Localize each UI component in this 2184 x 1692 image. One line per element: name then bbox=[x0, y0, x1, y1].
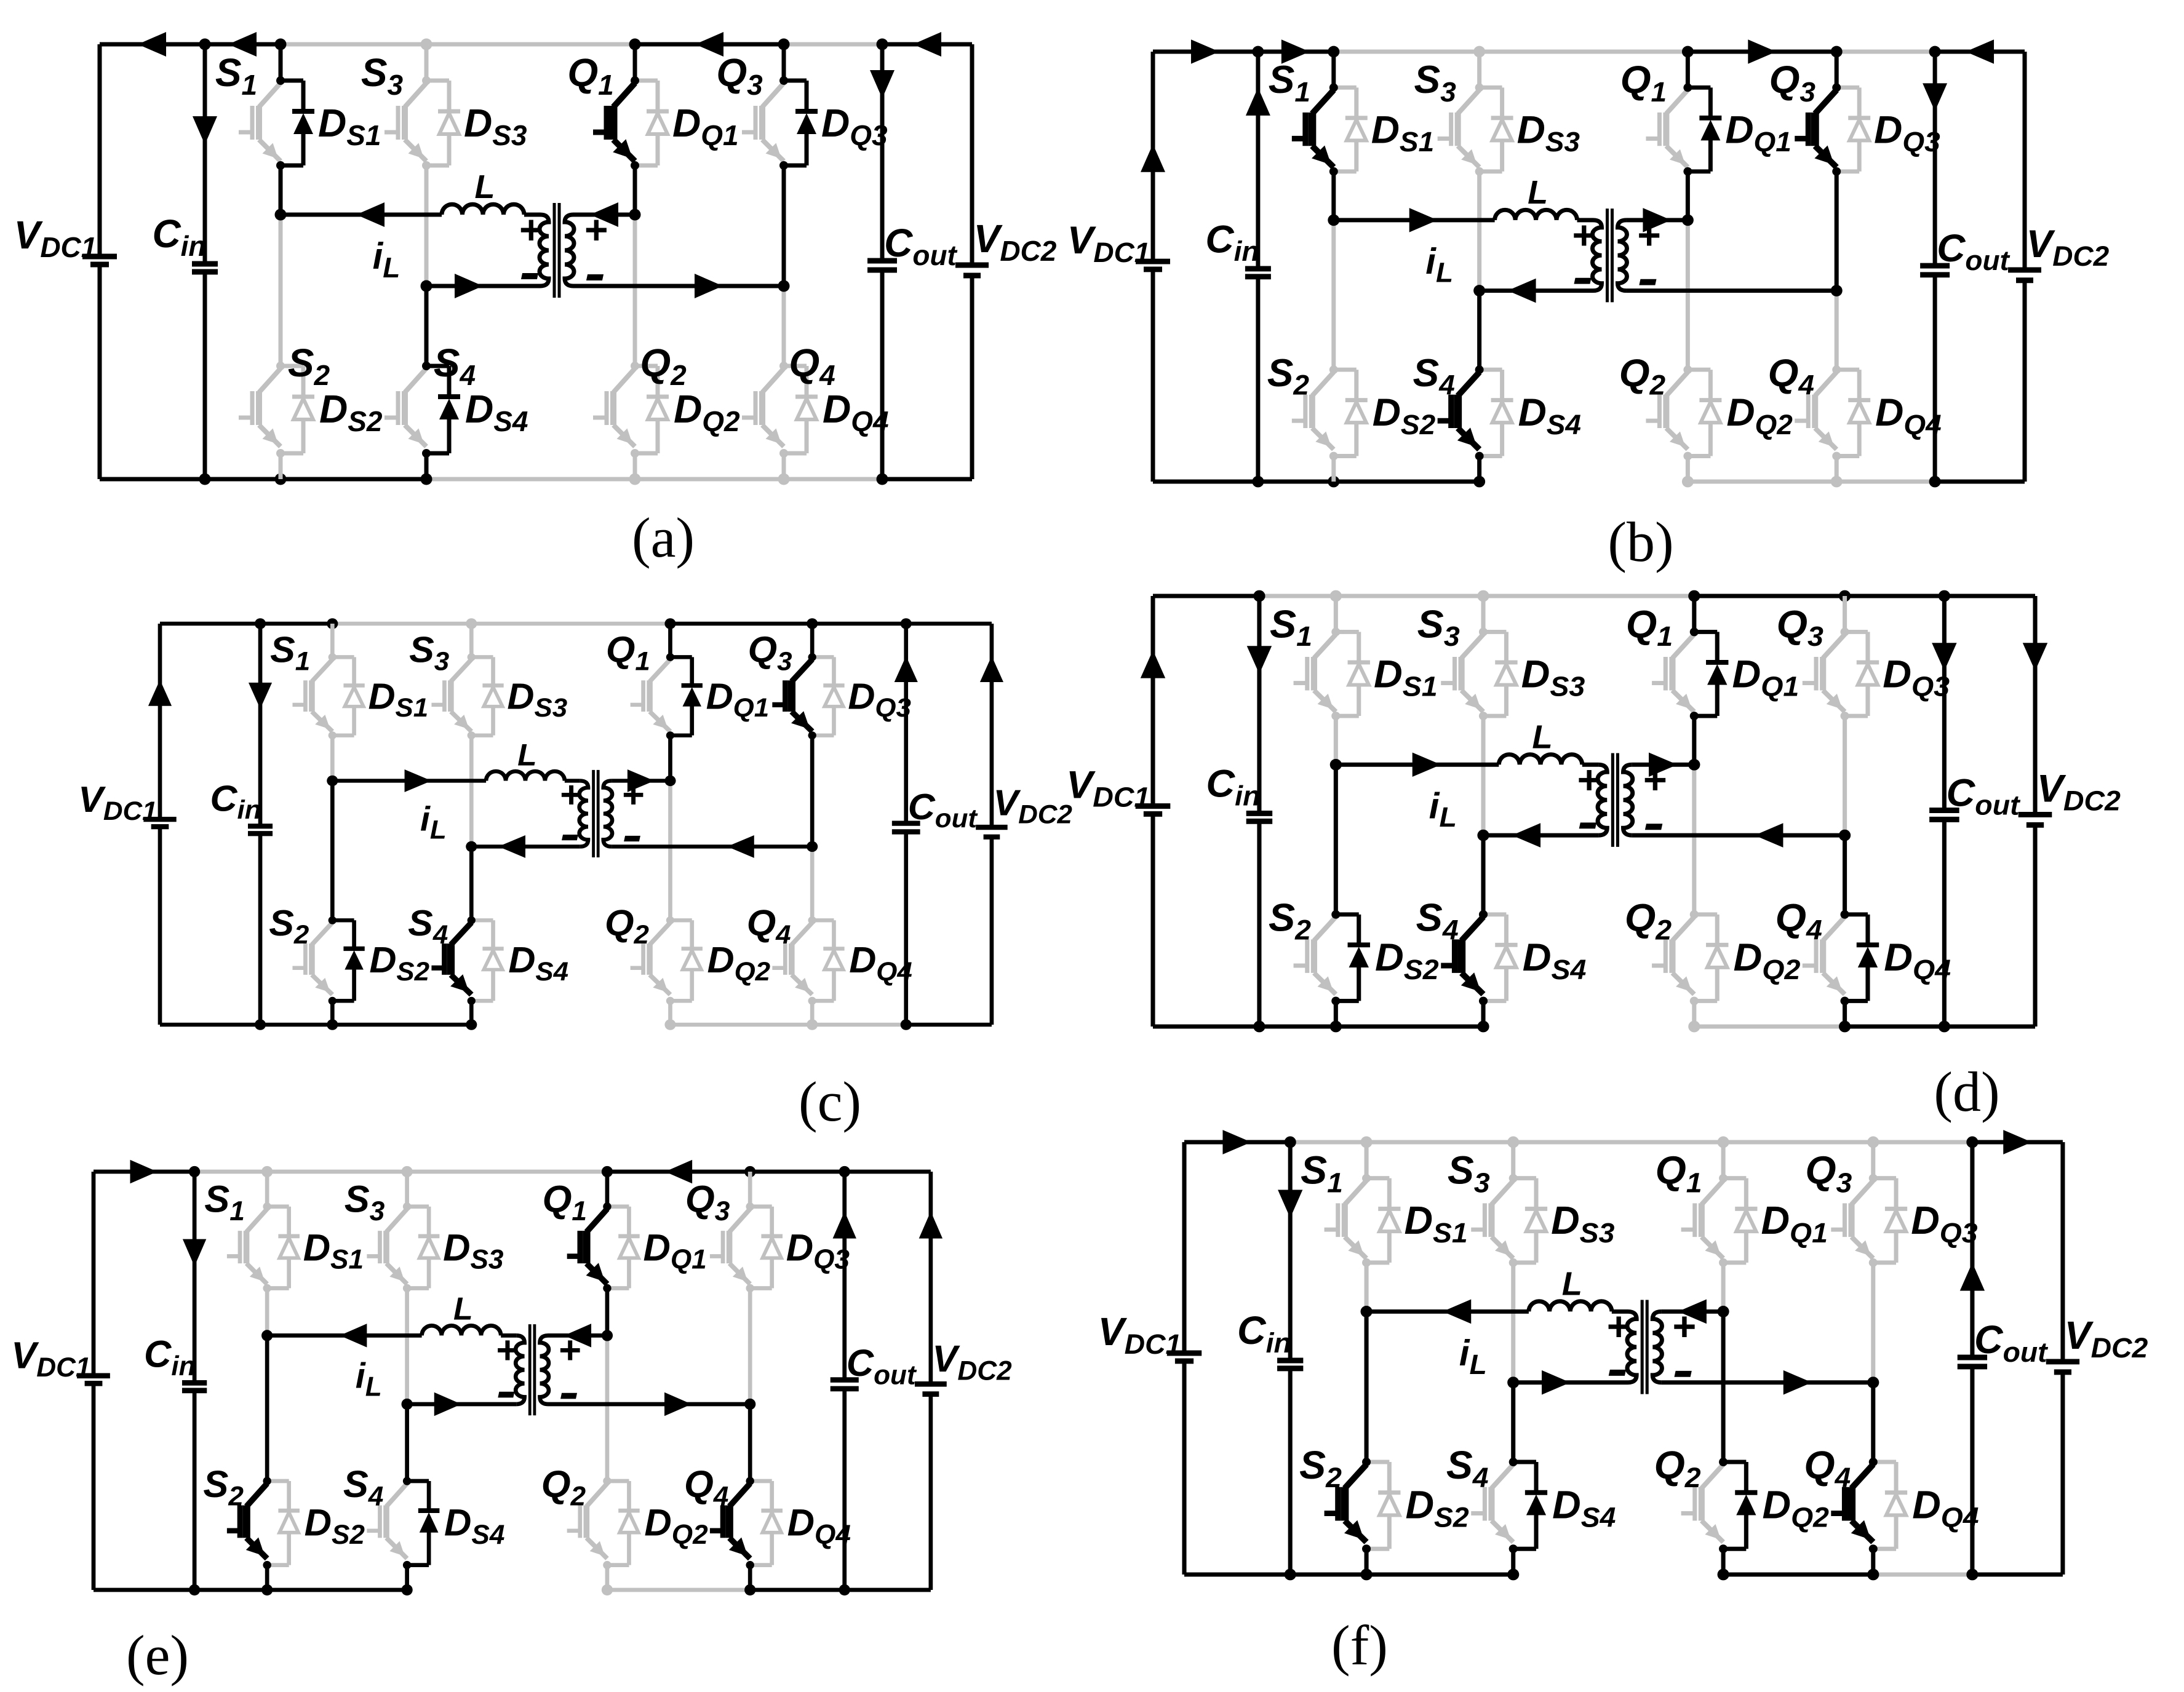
wire Cout branch (e) bbox=[842, 1172, 847, 1380]
diode DQ4 (d) bbox=[1845, 912, 1868, 916]
node S2 loop corners (f) bbox=[1362, 1458, 1371, 1466]
current arrow Cin wire (b) bbox=[1246, 87, 1270, 115]
wire S2 leg upper (d) bbox=[1334, 765, 1338, 915]
wire bottom rail seg1 (b) bbox=[1153, 480, 1258, 484]
node Q3 loop corners (a) bbox=[779, 76, 788, 85]
wire VDC2 branch (c) bbox=[989, 624, 994, 827]
wire bottom rail seg1 (f) bbox=[1184, 1572, 1290, 1576]
wire bottom rail seg3 (c) bbox=[332, 1022, 471, 1027]
wire bottom rail seg3 (d) bbox=[1336, 1025, 1483, 1029]
transistor Q3 (d) bbox=[1823, 634, 1844, 658]
wire top rail seg7 (d) bbox=[1944, 594, 2035, 598]
wire S4 leg lower (c) bbox=[469, 1001, 474, 1025]
wire Q4 leg lower (f) bbox=[1871, 1549, 1875, 1575]
node top rail x=531 (b) bbox=[1473, 46, 1485, 58]
diode DQ4 (b) bbox=[1836, 368, 1859, 372]
diode DS4 (f) bbox=[1513, 1460, 1536, 1464]
current arrow top rail (b) bbox=[1748, 39, 1776, 64]
node S-bridge mid1 junction (b) bbox=[1328, 214, 1339, 226]
wire S3 leg upper (e) bbox=[405, 1172, 409, 1207]
wire S2 leg lower (e) bbox=[265, 1565, 269, 1590]
diode DQ1 (b) bbox=[1688, 85, 1710, 90]
node bottom rail x=171 (d) bbox=[1253, 1021, 1265, 1033]
wire bottom rail seg2 (f) bbox=[1290, 1572, 1366, 1576]
wire S1 leg upper (b) bbox=[1331, 52, 1336, 87]
transistor S2 (f) bbox=[1345, 1464, 1366, 1488]
wire Q1 leg upper (e) bbox=[605, 1172, 609, 1207]
wire VDC2 branch (b) bbox=[2023, 52, 2027, 270]
transistor Q2 (b) bbox=[1666, 372, 1688, 396]
wire S3 leg upper (b) bbox=[1477, 52, 1481, 87]
wire top rail seg5 (e) bbox=[607, 1170, 750, 1174]
wire Q2 leg lower (a) bbox=[633, 453, 637, 479]
current arrow top rail (f) bbox=[2003, 1130, 2031, 1154]
wire top rail seg1 (a) bbox=[100, 42, 205, 47]
node S-bridge mid1 junction (a) bbox=[275, 209, 287, 221]
wire top rail seg5 (f) bbox=[1723, 1140, 1873, 1145]
diode DS3 (e) bbox=[407, 1204, 429, 1209]
battery VDC2 (d) bbox=[2019, 812, 2052, 817]
node S4 loop corners (c) bbox=[468, 916, 476, 924]
node top rail x=870 (f) bbox=[1718, 1137, 1729, 1148]
wire Q1 leg lower (d) bbox=[1692, 716, 1696, 765]
wire S3 leg lower (c) bbox=[469, 736, 474, 847]
transformer T primary winding (e) bbox=[516, 1335, 524, 1404]
node Q2 loop corners (b) bbox=[1683, 365, 1692, 374]
wire bottom rail seg6 (a) bbox=[784, 477, 882, 482]
transformer T primary winding (b) bbox=[1592, 220, 1601, 291]
node top rail x=531 (a) bbox=[421, 39, 432, 50]
wire mid1 primary (e) bbox=[267, 1333, 421, 1338]
svg-text:(e): (e) bbox=[126, 1624, 189, 1686]
diode DQ1 (e) bbox=[607, 1204, 629, 1209]
diode DS2 (d) bbox=[1336, 912, 1358, 916]
svg-text:L: L bbox=[1528, 174, 1548, 211]
wire bottom rail seg2 (d) bbox=[1259, 1025, 1336, 1029]
node top rail x=1112 (d) bbox=[1839, 590, 1851, 602]
diode DQ3 (b) bbox=[1836, 85, 1859, 90]
wire Q3 leg lower (f) bbox=[1871, 1263, 1875, 1383]
node bottom rail x=870 (f) bbox=[1718, 1569, 1729, 1581]
transistor Q2 (e) bbox=[586, 1483, 607, 1507]
svg-text:+: + bbox=[1606, 1304, 1630, 1349]
wire top rail seg1 (f) bbox=[1184, 1140, 1290, 1145]
wire mid1 secondary (c) bbox=[612, 779, 670, 783]
wire S3 leg lower (a) bbox=[424, 165, 429, 286]
node top rail x=1272 (f) bbox=[1966, 1137, 1978, 1148]
node Q2 loop corners (f) bbox=[1719, 1458, 1728, 1466]
node Q3 loop corners (e) bbox=[746, 1202, 754, 1210]
wire top rail seg5 (b) bbox=[1688, 50, 1836, 54]
node S-bridge mid2 junction (d) bbox=[1477, 830, 1489, 841]
node top rail x=171 (d) bbox=[1253, 590, 1265, 602]
wire S2 leg upper (e) bbox=[265, 1335, 269, 1481]
transistor S1 (c) bbox=[312, 659, 332, 681]
transistor Q2 (f) bbox=[1702, 1464, 1723, 1488]
wire S2 leg upper (c) bbox=[330, 780, 335, 920]
node top rail x=1112 (b) bbox=[1831, 46, 1843, 58]
wire S4 leg lower (f) bbox=[1511, 1549, 1515, 1575]
node top rail x=294 (e) bbox=[261, 1166, 273, 1177]
diode DS2 (f) bbox=[1366, 1460, 1389, 1464]
wire Q2 leg lower (e) bbox=[605, 1565, 609, 1590]
svg-text:+: + bbox=[1643, 757, 1667, 801]
wire Q2 leg upper (e) bbox=[605, 1335, 609, 1481]
node top rail x=531 (c) bbox=[466, 618, 477, 629]
transistor Q1 (c) bbox=[650, 659, 670, 681]
wire Q3 leg upper (c) bbox=[810, 624, 815, 657]
current arrow mid2 primary (d) bbox=[1512, 823, 1541, 848]
wire Q4 leg lower (a) bbox=[782, 453, 786, 479]
wire Q3 leg upper (b) bbox=[1835, 52, 1839, 87]
wire mid1 primary (c) bbox=[332, 779, 486, 783]
diode DS4 (b) bbox=[1480, 368, 1502, 372]
wire bottom rail seg1 (a) bbox=[100, 477, 205, 482]
transistor S2 (d) bbox=[1314, 917, 1336, 941]
wire bottom rail seg5 (f) bbox=[1723, 1572, 1873, 1576]
wire top rail seg6 (f) bbox=[1873, 1140, 1972, 1145]
node Q2 loop corners (e) bbox=[603, 1477, 611, 1485]
wire mid2 secondary (e) bbox=[548, 1402, 750, 1406]
node S2 loop corners (e) bbox=[263, 1477, 271, 1485]
transformer T secondary winding (d) bbox=[1624, 765, 1633, 835]
transformer T primary winding (c) bbox=[580, 780, 588, 846]
node S4 loop corners (a) bbox=[422, 362, 431, 370]
node top rail x=1112 (e) bbox=[744, 1166, 755, 1177]
node bottom rail x=171 (a) bbox=[199, 474, 211, 485]
wire VDC2 branch (d) bbox=[2033, 596, 2038, 814]
diode DS1 (c) bbox=[332, 655, 354, 659]
current arrow L wire (d) bbox=[1141, 650, 1165, 678]
node top rail x=531 (e) bbox=[401, 1166, 412, 1177]
node Q4 loop corners (f) bbox=[1869, 1458, 1878, 1466]
transistor Q1 (f) bbox=[1702, 1181, 1723, 1205]
label transformer polarity (c) bbox=[559, 774, 644, 841]
current arrow top rail (a) bbox=[695, 32, 723, 57]
wire Q2 leg upper (d) bbox=[1692, 765, 1696, 915]
wire Cin branch (b) bbox=[1256, 52, 1260, 269]
node bottom rail x=294 (f) bbox=[1360, 1569, 1372, 1581]
transistor Q2 (d) bbox=[1672, 917, 1694, 941]
current arrow top rail (e) bbox=[130, 1160, 157, 1183]
transformer T primary winding (d) bbox=[1598, 765, 1607, 835]
wire Q4 leg upper (d) bbox=[1843, 835, 1847, 915]
current arrow mid2 primary (e) bbox=[434, 1392, 461, 1416]
wire mid2 primary (e) bbox=[407, 1402, 517, 1406]
diode DQ1 (f) bbox=[1723, 1176, 1746, 1180]
wire mid1 primary (b) bbox=[1334, 218, 1495, 222]
wire top rail seg2 (a) bbox=[205, 42, 281, 47]
node Q-bridge mid1 junction (c) bbox=[664, 776, 676, 787]
current arrow top rail (e) bbox=[665, 1160, 692, 1183]
transistor Q3 (e) bbox=[730, 1209, 751, 1233]
wire bottom rail seg7 (b) bbox=[1935, 480, 2025, 484]
wire S2 leg lower (b) bbox=[1331, 456, 1336, 482]
label transformer polarity (d) bbox=[1576, 757, 1666, 830]
svg-text:+: + bbox=[558, 1329, 581, 1372]
node S4 loop corners (d) bbox=[1479, 910, 1488, 919]
node S-bridge mid2 junction (b) bbox=[1473, 285, 1485, 296]
current arrow Cout wire (c) bbox=[895, 656, 918, 682]
wire top rail seg6 (b) bbox=[1836, 50, 1935, 54]
svg-text:(d): (d) bbox=[1934, 1060, 1999, 1123]
wire bottom rail seg2 (a) bbox=[205, 477, 281, 482]
transformer T secondary winding (b) bbox=[1617, 220, 1627, 291]
wire S4 leg upper (d) bbox=[1481, 835, 1486, 915]
transistor Q4 (e) bbox=[730, 1483, 751, 1507]
diode DS2 (a) bbox=[281, 364, 303, 368]
current arrow mid2 primary (c) bbox=[498, 835, 525, 858]
diode DQ1 (a) bbox=[635, 79, 658, 83]
transistor Q3 (a) bbox=[762, 83, 784, 107]
wire mid1 primary (f) bbox=[1366, 1309, 1529, 1314]
node bottom rail x=531 (e) bbox=[401, 1584, 412, 1595]
transistor S1 (e) bbox=[247, 1209, 268, 1233]
node Q4 loop corners (d) bbox=[1840, 910, 1849, 919]
wire Cin branch (d) bbox=[1257, 596, 1261, 813]
svg-text:L: L bbox=[475, 169, 495, 205]
node bottom rail x=531 (f) bbox=[1507, 1569, 1519, 1581]
transistor Q2 (c) bbox=[650, 923, 670, 945]
node top rail x=1112 (f) bbox=[1867, 1137, 1879, 1148]
node top rail x=1272 (b) bbox=[1929, 46, 1941, 58]
wire mid1 primary (a) bbox=[281, 213, 442, 217]
node S-bridge mid1 junction (f) bbox=[1360, 1306, 1372, 1317]
current arrow mid1 secondary (e) bbox=[564, 1324, 591, 1347]
svg-text:+: + bbox=[1636, 213, 1660, 258]
node top rail x=870 (d) bbox=[1688, 590, 1700, 602]
wire S4 leg upper (e) bbox=[405, 1404, 409, 1481]
diode DQ3 (e) bbox=[750, 1204, 772, 1209]
diode DQ4 (f) bbox=[1873, 1460, 1896, 1464]
wire S3 leg upper (d) bbox=[1481, 596, 1486, 632]
node bottom rail x=1272 (f) bbox=[1966, 1569, 1978, 1581]
diode DS3 (d) bbox=[1483, 630, 1506, 634]
node S4 loop corners (f) bbox=[1509, 1458, 1518, 1466]
wire mid2 secondary (a) bbox=[573, 284, 784, 288]
transformer T secondary winding (f) bbox=[1652, 1311, 1662, 1382]
node bottom rail x=171 (f) bbox=[1285, 1569, 1296, 1581]
wire mid2 primary (a) bbox=[426, 284, 540, 288]
node Q3 loop corners (d) bbox=[1840, 627, 1849, 636]
wire top rail seg7 (a) bbox=[882, 42, 972, 47]
current arrow Cin wire (e) bbox=[183, 1239, 206, 1266]
wire VDC2 branch (f) bbox=[2060, 1142, 2065, 1362]
current arrow iL primary (e) bbox=[340, 1324, 367, 1347]
current arrow top rail (f) bbox=[1222, 1130, 1251, 1154]
wire mid2 primary (b) bbox=[1480, 288, 1593, 293]
transistor S4 (a) bbox=[405, 368, 426, 392]
current arrow Cin wire (f) bbox=[1278, 1190, 1302, 1218]
wire top rail seg7 (b) bbox=[1935, 50, 2025, 54]
current arrow mid2 secondary (c) bbox=[727, 835, 754, 858]
node bottom rail x=870 (a) bbox=[629, 474, 641, 485]
wire Q1 leg lower (f) bbox=[1721, 1263, 1726, 1312]
node bottom rail x=294 (c) bbox=[327, 1019, 338, 1030]
node top rail x=294 (f) bbox=[1360, 1137, 1372, 1148]
wire mid2 secondary (d) bbox=[1632, 833, 1845, 838]
transistor S3 (b) bbox=[1458, 90, 1480, 114]
node bottom rail x=1272 (e) bbox=[839, 1584, 850, 1595]
wire Q2 leg upper (b) bbox=[1686, 220, 1690, 370]
wire S4 leg lower (e) bbox=[405, 1565, 409, 1590]
node bottom rail x=294 (d) bbox=[1330, 1021, 1342, 1033]
node S1 loop corners (e) bbox=[263, 1202, 271, 1210]
wire bottom rail seg7 (a) bbox=[882, 477, 972, 482]
capacitor Cout (a) bbox=[867, 258, 897, 264]
wire bottom rail seg6 (f) bbox=[1873, 1572, 1972, 1576]
wire VDC2 branch (e) bbox=[928, 1172, 933, 1384]
wire S2 leg lower (d) bbox=[1334, 1001, 1338, 1027]
battery VDC1 (b) bbox=[1136, 259, 1170, 264]
diode DS3 (c) bbox=[471, 655, 493, 659]
transistor S1 (f) bbox=[1345, 1181, 1366, 1205]
capacitor Cout (b) bbox=[1920, 263, 1950, 269]
node Q1 loop corners (e) bbox=[603, 1202, 611, 1210]
node top rail x=171 (f) bbox=[1285, 1137, 1296, 1148]
wire S3 leg upper (a) bbox=[424, 44, 429, 81]
wire Cout branch (d) bbox=[1942, 596, 1947, 811]
transistor Q3 (b) bbox=[1815, 90, 1836, 114]
capacitor Cin (d) bbox=[1246, 811, 1272, 816]
label transformer polarity (e) bbox=[495, 1329, 581, 1399]
wire top rail seg4 (f) bbox=[1513, 1140, 1723, 1145]
node top rail x=1112 (a) bbox=[778, 39, 790, 50]
wire bottom rail seg5 (c) bbox=[670, 1022, 812, 1027]
wire Cout branch (c) bbox=[904, 624, 908, 824]
wire S2 leg upper (f) bbox=[1365, 1311, 1369, 1462]
node S3 loop corners (a) bbox=[422, 76, 431, 85]
wire top rail seg6 (e) bbox=[750, 1170, 845, 1174]
current arrow mid2 secondary (f) bbox=[1783, 1370, 1812, 1395]
wire Q3 leg upper (a) bbox=[782, 44, 786, 81]
capacitor Cin (c) bbox=[248, 824, 273, 829]
wire VDC2 branch (a) bbox=[970, 44, 974, 265]
wire mid2 primary (f) bbox=[1513, 1380, 1628, 1384]
transformer T primary winding (a) bbox=[540, 215, 549, 286]
current arrow Cout wire (d) bbox=[1932, 643, 1956, 671]
wire S4 leg lower (b) bbox=[1477, 456, 1481, 482]
wire bottom rail seg3 (a) bbox=[281, 477, 426, 482]
node Q-bridge mid2 junction (f) bbox=[1867, 1376, 1879, 1388]
transistor S3 (d) bbox=[1462, 634, 1483, 658]
wire Q1 leg upper (c) bbox=[668, 624, 672, 657]
transistor S2 (c) bbox=[312, 923, 332, 945]
label transformer polarity (b) bbox=[1571, 213, 1660, 285]
wire mid1 secondary (f) bbox=[1661, 1309, 1723, 1314]
diode DQ3 (a) bbox=[784, 79, 807, 83]
node S3 loop corners (e) bbox=[403, 1202, 411, 1210]
wire top rail seg2 (d) bbox=[1259, 594, 1336, 598]
wire bottom rail seg7 (c) bbox=[906, 1022, 992, 1027]
current arrow Cin wire (d) bbox=[1247, 646, 1272, 674]
wire mid1 secondary (d) bbox=[1632, 763, 1694, 767]
wire top rail seg7 (e) bbox=[845, 1170, 931, 1174]
wire top rail seg4 (e) bbox=[407, 1170, 607, 1174]
wire mid2 secondary (c) bbox=[612, 844, 812, 849]
diode DQ2 (b) bbox=[1688, 368, 1710, 372]
capacitor Cout (d) bbox=[1929, 808, 1959, 813]
wire top rail seg3 (b) bbox=[1334, 50, 1480, 54]
current arrow mid2 secondary (d) bbox=[1755, 823, 1783, 848]
wire top rail seg2 (b) bbox=[1258, 50, 1334, 54]
node bottom rail x=171 (e) bbox=[189, 1584, 200, 1595]
node bottom rail x=531 (c) bbox=[466, 1019, 477, 1030]
current arrow iL primary (b) bbox=[1409, 208, 1438, 232]
svg-text:+: + bbox=[519, 207, 543, 252]
node S2 loop corners (c) bbox=[329, 916, 337, 924]
diode DS2 (e) bbox=[267, 1479, 289, 1483]
diode DQ2 (c) bbox=[670, 918, 691, 923]
diode DS3 (f) bbox=[1513, 1176, 1536, 1180]
node bottom rail x=1112 (d) bbox=[1839, 1021, 1851, 1033]
node S-bridge mid2 junction (a) bbox=[421, 280, 432, 292]
transistor Q4 (a) bbox=[762, 368, 784, 392]
node bottom rail x=294 (e) bbox=[261, 1584, 273, 1595]
wire top rail seg2 (f) bbox=[1290, 1140, 1366, 1145]
node bottom rail x=1112 (e) bbox=[744, 1584, 755, 1595]
transistor Q4 (b) bbox=[1815, 372, 1836, 396]
wire top rail seg6 (a) bbox=[784, 42, 882, 47]
wire S2 leg lower (a) bbox=[279, 453, 283, 479]
wire bottom rail seg1 (d) bbox=[1153, 1025, 1259, 1029]
current arrow Cin wire (c) bbox=[249, 683, 272, 709]
node top rail x=171 (c) bbox=[255, 618, 266, 629]
wire Q4 leg lower (c) bbox=[810, 1001, 815, 1025]
wire bottom rail seg7 (d) bbox=[1944, 1025, 2035, 1029]
current arrow iL primary (a) bbox=[356, 202, 385, 227]
node bottom rail x=1112 (b) bbox=[1831, 476, 1843, 488]
diode DQ4 (e) bbox=[750, 1479, 772, 1483]
transistor Q1 (d) bbox=[1672, 634, 1694, 658]
transistor Q4 (c) bbox=[792, 923, 812, 945]
wire top rail seg1 (b) bbox=[1153, 50, 1258, 54]
diode DQ2 (a) bbox=[635, 364, 658, 368]
diode DS4 (a) bbox=[426, 364, 449, 368]
capacitor Cin (b) bbox=[1245, 266, 1271, 271]
wire S1 leg lower (d) bbox=[1334, 716, 1338, 765]
wire Q2 leg lower (d) bbox=[1692, 1001, 1696, 1027]
wire mid2 primary (d) bbox=[1483, 833, 1598, 838]
wire Cin branch (f) bbox=[1288, 1142, 1293, 1360]
transformer T core (c) bbox=[592, 770, 595, 857]
node top rail x=171 (e) bbox=[189, 1166, 200, 1177]
node bottom rail x=1112 (f) bbox=[1867, 1569, 1879, 1581]
wire bottom rail seg5 (d) bbox=[1694, 1025, 1845, 1029]
node top rail x=870 (c) bbox=[664, 618, 676, 629]
svg-text:L: L bbox=[1532, 719, 1552, 755]
wire bottom rail seg3 (e) bbox=[267, 1587, 407, 1592]
diode DQ3 (d) bbox=[1845, 630, 1868, 634]
node top rail x=870 (a) bbox=[629, 39, 641, 50]
capacitor Cin (e) bbox=[182, 1380, 207, 1386]
wire S3 leg lower (e) bbox=[405, 1288, 409, 1404]
node S4 loop corners (e) bbox=[403, 1477, 411, 1485]
node S1 loop corners (b) bbox=[1329, 83, 1338, 92]
diode DS3 (b) bbox=[1480, 85, 1502, 90]
node Q2 loop corners (d) bbox=[1690, 910, 1699, 919]
wire VDC1 branch (b) bbox=[1151, 52, 1155, 261]
wire S4 leg upper (b) bbox=[1477, 291, 1481, 370]
wire mid1 primary (d) bbox=[1336, 763, 1499, 767]
wire bottom rail seg6 (c) bbox=[812, 1022, 906, 1027]
node S3 loop corners (b) bbox=[1475, 83, 1484, 92]
wire Q4 leg upper (f) bbox=[1871, 1383, 1875, 1462]
node S2 loop corners (d) bbox=[1331, 910, 1340, 919]
wire Cout branch (a) bbox=[880, 44, 885, 261]
wire Q1 leg lower (e) bbox=[605, 1288, 609, 1335]
transistor Q3 (f) bbox=[1852, 1181, 1873, 1205]
